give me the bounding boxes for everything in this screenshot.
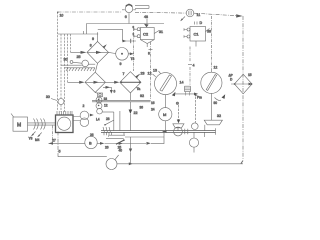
svg-text:T8: T8 [131,57,135,61]
svg-text:2: 2 [83,104,85,108]
svg-text:C2: C2 [143,32,149,37]
svg-text:6: 6 [114,90,116,94]
svg-text:27: 27 [52,139,56,143]
svg-text:9: 9 [120,62,122,66]
svg-text:8: 8 [90,44,92,48]
svg-text:24: 24 [151,108,155,112]
svg-text:9: 9 [92,37,94,41]
svg-text:B: B [89,140,92,145]
svg-text:30: 30 [64,58,68,62]
svg-text:31: 31 [159,30,163,34]
svg-text:11: 11 [197,13,201,17]
svg-text:26: 26 [90,133,94,137]
svg-text:12: 12 [148,72,152,76]
svg-text:23: 23 [141,72,145,76]
svg-text:10: 10 [60,14,64,18]
svg-text:38: 38 [207,30,211,34]
svg-text:30: 30 [46,95,50,99]
svg-text:25: 25 [77,55,81,59]
svg-text:D: D [200,21,203,25]
svg-text:15: 15 [248,73,252,77]
svg-text:7: 7 [123,72,125,76]
svg-text:36: 36 [140,106,144,110]
svg-text:18: 18 [104,97,108,101]
svg-text:5: 5 [59,150,61,154]
svg-text:C1: C1 [194,32,200,37]
svg-text:M: M [17,123,21,129]
svg-text:Y8: Y8 [29,137,33,141]
svg-text:26: 26 [105,145,109,149]
svg-text:48: 48 [144,15,148,19]
svg-text:4: 4 [193,64,195,68]
svg-text:M: M [163,112,166,117]
svg-text:G: G [176,102,179,106]
svg-text:90: 90 [214,101,218,105]
svg-text:28: 28 [106,117,110,121]
svg-text:M4: M4 [35,138,40,142]
svg-text:D: D [230,78,233,82]
svg-text:14: 14 [180,81,184,85]
svg-text:13: 13 [153,69,157,73]
svg-text:16: 16 [151,101,155,105]
svg-text:92: 92 [140,94,144,98]
svg-text:12: 12 [214,66,218,70]
svg-text:L4: L4 [96,118,100,122]
svg-text:32: 32 [217,114,221,118]
svg-text:25: 25 [118,146,122,150]
svg-text:Ta: Ta [137,87,141,91]
svg-text:8: 8 [148,52,150,56]
svg-text:22: 22 [134,111,138,115]
svg-text:12: 12 [104,104,108,108]
svg-text:6: 6 [125,15,127,19]
